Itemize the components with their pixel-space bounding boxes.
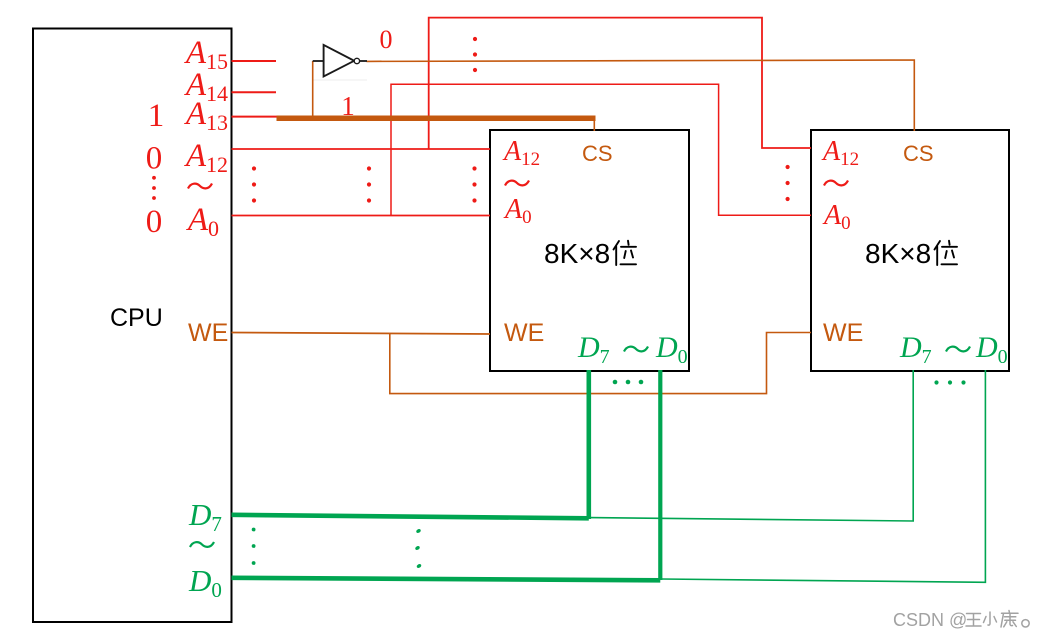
wire WE branch to U2 [390,333,811,394]
faint artifact line under inverter [313,79,367,81]
svg-text:CPU: CPU [110,304,163,332]
inverter U3 triangle [324,45,355,77]
glyph wei U2 [935,241,958,265]
svg-text:8K×8: 8K×8 [865,238,931,269]
watermark name glyphs [966,611,1029,628]
svg-text:0: 0 [146,141,163,177]
node dots data ellipsis inside CPU [252,528,256,565]
node dots address ellipsis before U2 [786,165,790,201]
node dots data ellipsis under U2 [934,380,965,384]
label tilde U2 [824,181,848,186]
wire A0 row CPU to U1 [232,215,491,217]
wire WE row CPU to U1 [232,333,491,335]
svg-text:CSDN @: CSDN @ [893,610,967,630]
node dots address ellipsis top rail [473,37,477,72]
wire D0 thick CPU to U1 [232,578,661,581]
svg-text:0: 0 [380,25,393,54]
node dots address ellipsis mid span [367,166,371,202]
inverter U3 bubble [354,58,359,63]
svg-text:1: 1 [341,91,355,121]
node dots data ellipsis mid span [415,528,422,569]
svg-text:CS: CS [582,141,613,166]
wire A12 branch to U2 via top rail [429,18,811,149]
wire A15 stub [232,60,277,62]
svg-text:1: 1 [148,98,165,134]
wire A13 segment [232,116,279,118]
node dots data ellipsis under U1 [613,380,644,385]
wire U1 D7 drop [586,370,591,519]
svg-text:0: 0 [146,204,163,240]
glyph wei U1 [614,241,637,265]
node dots address ellipsis left of CPU [152,176,156,200]
chip U1 box (left 8K x 8) [490,130,689,371]
label tilde CPU data [190,542,214,547]
wire A12 row CPU to U1 [232,148,491,150]
label tilde CPU address [188,184,212,189]
wire U2 D0 thin [661,370,985,582]
wire A14 stub [232,91,277,93]
wire A0 branch to U2 over U1 [391,84,811,215]
wire inverter input riser from bus [312,61,314,117]
node dots address ellipsis before U1 [472,166,476,202]
wire bus to U1 CS pin [593,120,595,131]
label tilde U1 [505,181,529,186]
CPU box [33,29,232,623]
thick A13 select bus (logic 1) [277,116,596,122]
svg-text:CS: CS [903,141,934,166]
inverter U3 input lead [313,60,324,62]
wire inverter output to U2 CS [367,60,915,131]
svg-text:WE: WE [823,319,863,347]
svg-text:WE: WE [188,319,228,347]
chip U2 box (right 8K x 8) [811,130,1009,371]
wire D7 thick CPU to U1 [232,515,589,519]
wire U2 D7 thin [589,370,913,521]
node dots address ellipsis right of CPU edge [252,166,256,202]
svg-text:WE: WE [504,319,544,347]
svg-text:8K×8: 8K×8 [544,238,610,269]
wire U1 D0 drop [658,370,662,580]
inverter U3 output lead [360,60,367,62]
